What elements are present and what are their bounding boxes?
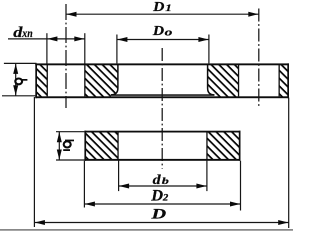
- flange inner-left hatch block (chamfered bore corner): [85, 64, 118, 96]
- q dimension line: [15, 63, 17, 95]
- gasket left hatch: [86, 132, 119, 159]
- b1 ext line bottom: [56, 159, 84, 161]
- svg-text:D: D: [152, 24, 165, 39]
- b1 dimension line: [58, 132, 60, 160]
- bolt hole wall left-left: [47, 64, 48, 96]
- bore wall left with fillet: [111, 64, 118, 95]
- svg-text:1: 1: [165, 4, 172, 14]
- gasket left edge: [84, 131, 86, 161]
- D ext line left: [33, 97, 35, 227]
- gasket bottom edge: [84, 159, 240, 161]
- dxn arrow right: [74, 36, 84, 41]
- svg-text:D: D: [150, 188, 163, 205]
- q arrow top: [13, 64, 18, 74]
- q ext line bottom: [2, 95, 37, 97]
- D ext line right: [288, 98, 290, 228]
- svg-text:b: b: [162, 175, 169, 186]
- dxn ext line left: [46, 33, 48, 63]
- b1 arrow top: [57, 132, 62, 142]
- svg-text:хп: хп: [21, 27, 32, 40]
- D2 ext line left: [83, 161, 85, 208]
- D2 arrow right: [230, 202, 240, 207]
- dxn ext line right: [84, 33, 86, 63]
- gasket right edge: [239, 131, 241, 161]
- flange right rim hatch: [279, 64, 289, 96]
- q label: [15, 79, 27, 85]
- bolt hole wall right-right: [279, 64, 280, 96]
- bolt hole wall left-right: [84, 64, 85, 96]
- flange bottom edge: [35, 96, 289, 98]
- db arrow left: [119, 184, 129, 189]
- dxn arrow left: [47, 36, 57, 41]
- b1 label: [63, 140, 74, 151]
- db ext line left: [118, 160, 120, 191]
- D1 arrow right: [248, 12, 258, 17]
- D0 ext line right: [208, 35, 210, 64]
- D0 dimension line: [117, 39, 209, 41]
- D2 dimension line: [84, 203, 240, 205]
- svg-text:2: 2: [162, 193, 168, 203]
- q ext line top: [4, 62, 37, 64]
- D arrow left: [35, 220, 45, 225]
- D2 ext line right: [240, 161, 242, 211]
- gasket hole wall left: [117, 132, 118, 159]
- flange inner-right hatch block (chamfered bore corner): [208, 64, 239, 96]
- flange top edge: [35, 63, 289, 65]
- gasket hole wall right: [206, 132, 207, 159]
- D0 ext line left: [116, 35, 118, 64]
- bolt hole wall right-left: [238, 64, 239, 96]
- db arrow right: [196, 184, 206, 189]
- bore bottom line: [111, 94, 214, 96]
- db ext line right: [206, 160, 208, 191]
- svg-text:D: D: [152, 0, 165, 15]
- centerline bolt left: [65, 4, 67, 108]
- svg-text:d: d: [153, 173, 162, 188]
- b1 ext line top: [56, 131, 84, 133]
- D1 dimension line: [66, 13, 259, 15]
- main centerline: [161, 48, 163, 169]
- b1 arrow bottom: [57, 150, 62, 160]
- gasket top edge: [84, 131, 240, 133]
- bore wall right with fillet: [208, 64, 215, 95]
- page rule (bottom border line): [0, 229, 293, 230]
- flange left rim hatch: [36, 64, 48, 96]
- gasket right hatch: [207, 132, 240, 159]
- flange left edge: [35, 63, 37, 98]
- flange right edge: [287, 63, 289, 98]
- dxn dimension line: [8, 38, 85, 40]
- svg-text:D: D: [150, 205, 166, 222]
- svg-text:o: o: [165, 26, 173, 38]
- D1 arrow left: [66, 12, 76, 17]
- q arrow bottom: [13, 85, 18, 95]
- D0 arrow left: [117, 37, 127, 42]
- D arrow right: [278, 220, 288, 225]
- D dimension line: [34, 222, 288, 224]
- D0 arrow right: [198, 37, 208, 42]
- D2 arrow left: [85, 202, 95, 207]
- centerline bolt right: [258, 9, 260, 108]
- db dimension line: [119, 185, 207, 187]
